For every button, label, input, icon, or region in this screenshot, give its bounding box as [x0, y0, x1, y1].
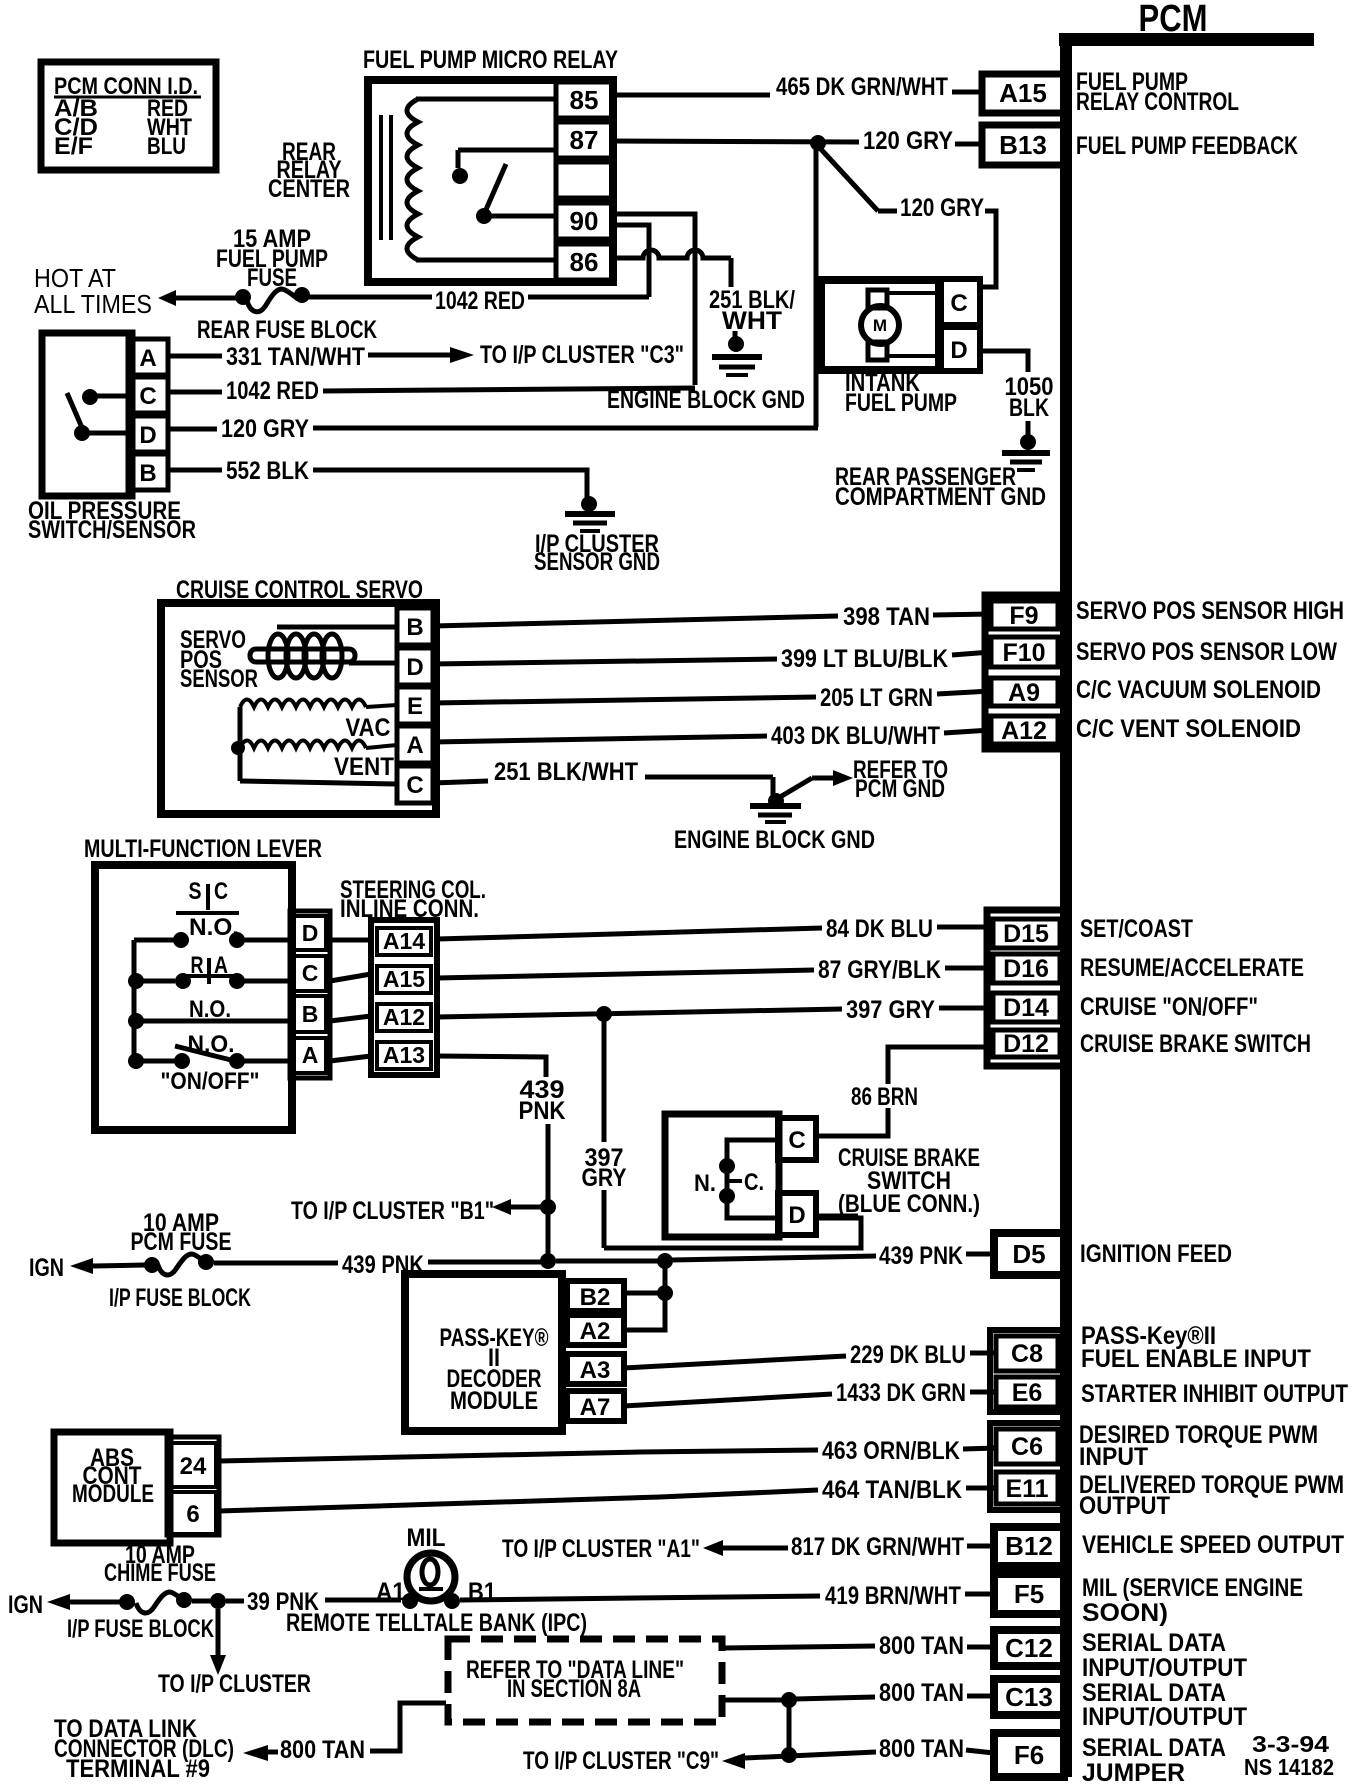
svg-text:INPUT/OUTPUT: INPUT/OUTPUT [1082, 1654, 1247, 1682]
svg-text:F10: F10 [1002, 639, 1045, 667]
svg-text:A15: A15 [383, 966, 425, 992]
svg-text:87: 87 [570, 125, 599, 155]
svg-text:1042 RED: 1042 RED [435, 287, 525, 315]
svg-text:D16: D16 [1003, 955, 1049, 983]
svg-text:OUTPUT: OUTPUT [1079, 1492, 1170, 1520]
svg-text:A1: A1 [376, 1578, 405, 1606]
svg-text:FUEL PUMP: FUEL PUMP [845, 389, 957, 417]
svg-text:RELAY CONTROL: RELAY CONTROL [1076, 88, 1239, 116]
svg-text:C/C VENT SOLENOID: C/C VENT SOLENOID [1076, 715, 1301, 743]
svg-text:D15: D15 [1003, 920, 1049, 948]
svg-text:M: M [873, 316, 887, 335]
svg-text:BLK: BLK [1009, 394, 1049, 422]
svg-text:NS 14182: NS 14182 [1244, 1754, 1334, 1780]
svg-text:A: A [406, 732, 423, 759]
svg-text:E11: E11 [1005, 1475, 1048, 1503]
svg-text:WHT: WHT [722, 307, 782, 335]
svg-text:6: 6 [186, 1501, 199, 1528]
svg-text:B2: B2 [580, 1284, 611, 1311]
svg-text:I/P FUSE BLOCK: I/P FUSE BLOCK [109, 1284, 251, 1312]
svg-text:B12: B12 [1005, 1531, 1053, 1561]
svg-text:D: D [950, 337, 967, 364]
svg-text:464 TAN/BLK: 464 TAN/BLK [822, 1476, 962, 1504]
svg-text:IGN: IGN [8, 1591, 43, 1619]
svg-text:D12: D12 [1003, 1030, 1049, 1058]
svg-text:552 BLK: 552 BLK [226, 457, 309, 485]
svg-text:SENSOR: SENSOR [180, 665, 258, 693]
svg-text:465 DK GRN/WHT: 465 DK GRN/WHT [776, 73, 948, 101]
svg-text:MODULE: MODULE [450, 1387, 538, 1415]
svg-text:24: 24 [180, 1453, 207, 1480]
svg-text:399 LT BLU/BLK: 399 LT BLU/BLK [781, 645, 948, 673]
svg-text:B: B [302, 1001, 319, 1027]
svg-text:INPUT: INPUT [1079, 1443, 1148, 1471]
svg-text:C13: C13 [1005, 1682, 1053, 1712]
svg-text:A12: A12 [1001, 717, 1047, 745]
svg-text:VEHICLE SPEED OUTPUT: VEHICLE SPEED OUTPUT [1082, 1531, 1344, 1559]
svg-text:SWITCH/SENSOR: SWITCH/SENSOR [28, 516, 196, 544]
svg-text:CHIME FUSE: CHIME FUSE [104, 1559, 216, 1587]
svg-text:STARTER INHIBIT OUTPUT: STARTER INHIBIT OUTPUT [1081, 1380, 1348, 1408]
svg-text:FUEL PUMP MICRO RELAY: FUEL PUMP MICRO RELAY [363, 46, 618, 74]
svg-text:BLU: BLU [147, 133, 186, 160]
svg-text:C8: C8 [1011, 1340, 1043, 1368]
svg-text:331 TAN/WHT: 331 TAN/WHT [226, 343, 365, 371]
svg-text:D: D [302, 920, 319, 946]
svg-text:800 TAN: 800 TAN [879, 1632, 964, 1660]
svg-text:800 TAN: 800 TAN [879, 1679, 964, 1707]
svg-text:E/F: E/F [54, 133, 93, 160]
svg-text:C6: C6 [1011, 1433, 1043, 1461]
svg-text:C: C [788, 1127, 805, 1154]
svg-text:F5: F5 [1014, 1579, 1044, 1609]
svg-text:A7: A7 [580, 1394, 611, 1421]
svg-text:GRY: GRY [582, 1164, 627, 1192]
svg-text:TERMINAL #9: TERMINAL #9 [66, 1755, 210, 1783]
svg-text:IGNITION FEED: IGNITION FEED [1080, 1240, 1232, 1268]
svg-text:D: D [788, 1202, 805, 1229]
svg-text:SERVO POS SENSOR HIGH: SERVO POS SENSOR HIGH [1076, 597, 1344, 625]
svg-text:A3: A3 [580, 1357, 611, 1384]
svg-text:D5: D5 [1012, 1239, 1045, 1269]
svg-text:84 DK BLU: 84 DK BLU [826, 915, 933, 943]
svg-text:817 DK GRN/WHT: 817 DK GRN/WHT [791, 1533, 964, 1561]
svg-text:120 GRY: 120 GRY [863, 127, 953, 155]
svg-text:439 PNK: 439 PNK [879, 1242, 963, 1270]
svg-text:MODULE: MODULE [72, 1480, 154, 1508]
svg-text:TO I/P CLUSTER "B1": TO I/P CLUSTER "B1" [291, 1197, 494, 1225]
svg-text:FUEL PUMP FEEDBACK: FUEL PUMP FEEDBACK [1076, 132, 1298, 160]
svg-text:C: C [214, 878, 228, 905]
svg-text:A13: A13 [383, 1042, 425, 1068]
svg-text:D: D [406, 654, 423, 681]
svg-text:C12: C12 [1005, 1633, 1053, 1663]
svg-text:B: B [139, 460, 156, 487]
svg-text:(BLUE CONN.): (BLUE CONN.) [838, 1190, 980, 1218]
svg-text:RESUME/ACCELERATE: RESUME/ACCELERATE [1080, 954, 1304, 982]
svg-text:REAR FUSE BLOCK: REAR FUSE BLOCK [197, 316, 377, 344]
svg-text:800 TAN: 800 TAN [879, 1735, 964, 1763]
svg-text:398 TAN: 398 TAN [843, 603, 930, 631]
svg-text:A: A [302, 1042, 319, 1068]
svg-text:INPUT/OUTPUT: INPUT/OUTPUT [1082, 1703, 1247, 1731]
svg-text:B: B [406, 614, 423, 641]
svg-text:A12: A12 [383, 1004, 425, 1030]
svg-text:C: C [302, 960, 319, 986]
svg-text:I/P FUSE BLOCK: I/P FUSE BLOCK [67, 1615, 214, 1643]
svg-text:D14: D14 [1003, 994, 1049, 1022]
svg-text:B1: B1 [468, 1578, 496, 1606]
svg-text:251 BLK/WHT: 251 BLK/WHT [494, 758, 638, 786]
svg-text:C: C [950, 290, 967, 317]
svg-text:86 BRN: 86 BRN [851, 1083, 918, 1111]
svg-text:229 DK BLU: 229 DK BLU [850, 1341, 966, 1369]
svg-text:N.: N. [694, 1170, 716, 1197]
svg-text:E6: E6 [1012, 1379, 1043, 1407]
svg-text:A: A [139, 345, 156, 372]
svg-text:ALL TIMES: ALL TIMES [34, 289, 152, 319]
svg-text:D: D [139, 422, 156, 449]
svg-text:FUSE: FUSE [247, 264, 297, 292]
svg-text:PCM FUSE: PCM FUSE [131, 1228, 232, 1256]
svg-text:REMOTE TELLTALE BANK (IPC): REMOTE TELLTALE BANK (IPC) [286, 1609, 587, 1637]
svg-text:SERIAL DATA: SERIAL DATA [1082, 1734, 1226, 1762]
svg-text:CRUISE "ON/OFF": CRUISE "ON/OFF" [1080, 993, 1258, 1021]
svg-text:1433 DK GRN: 1433 DK GRN [836, 1379, 966, 1407]
svg-text:C: C [139, 383, 156, 410]
svg-text:85: 85 [570, 85, 599, 115]
svg-text:F9: F9 [1009, 602, 1038, 630]
svg-text:F6: F6 [1014, 1740, 1044, 1770]
svg-text:C: C [406, 772, 423, 799]
svg-text:VENT: VENT [334, 753, 394, 781]
svg-text:SOON): SOON) [1082, 1599, 1168, 1627]
svg-text:TO I/P CLUSTER: TO I/P CLUSTER [158, 1670, 311, 1698]
svg-text:FUEL ENABLE INPUT: FUEL ENABLE INPUT [1081, 1345, 1311, 1373]
svg-text:IGN: IGN [29, 1254, 64, 1282]
svg-text:397 GRY: 397 GRY [846, 996, 935, 1024]
svg-text:PNK: PNK [519, 1097, 566, 1125]
svg-text:C/C VACUUM SOLENOID: C/C VACUUM SOLENOID [1076, 676, 1321, 704]
svg-text:A9: A9 [1008, 679, 1040, 707]
svg-text:463 ORN/BLK: 463 ORN/BLK [822, 1437, 960, 1465]
svg-text:CENTER: CENTER [268, 175, 350, 203]
svg-text:1042 RED: 1042 RED [226, 377, 319, 405]
svg-text:C.: C. [744, 1169, 764, 1196]
svg-text:SERIAL DATA: SERIAL DATA [1082, 1629, 1226, 1657]
svg-text:IN SECTION 8A: IN SECTION 8A [507, 1675, 641, 1703]
svg-text:205 LT GRN: 205 LT GRN [820, 684, 933, 712]
svg-text:MULTI-FUNCTION LEVER: MULTI-FUNCTION LEVER [84, 835, 322, 863]
svg-text:CRUISE BRAKE SWITCH: CRUISE BRAKE SWITCH [1080, 1030, 1311, 1058]
svg-text:A2: A2 [580, 1318, 611, 1345]
svg-text:MIL: MIL [407, 1524, 446, 1552]
svg-text:A15: A15 [999, 78, 1047, 108]
svg-text:TO I/P CLUSTER "C3": TO I/P CLUSTER "C3" [480, 341, 684, 369]
svg-text:B13: B13 [999, 130, 1047, 160]
svg-text:120 GRY: 120 GRY [900, 194, 984, 222]
svg-text:419 BRN/WHT: 419 BRN/WHT [825, 1582, 961, 1610]
svg-text:403 DK BLU/WHT: 403 DK BLU/WHT [771, 722, 940, 750]
svg-text:86: 86 [570, 247, 599, 277]
svg-text:TO I/P CLUSTER "A1": TO I/P CLUSTER "A1" [502, 1535, 700, 1563]
svg-text:87 GRY/BLK: 87 GRY/BLK [818, 956, 941, 984]
svg-text:ENGINE BLOCK GND: ENGINE BLOCK GND [674, 826, 875, 854]
svg-text:VAC: VAC [346, 714, 391, 742]
svg-text:MIL (SERVICE ENGINE: MIL (SERVICE ENGINE [1082, 1574, 1303, 1602]
svg-text:SERVO POS SENSOR LOW: SERVO POS SENSOR LOW [1076, 638, 1337, 666]
svg-text:90: 90 [570, 206, 599, 236]
svg-text:SET/COAST: SET/COAST [1080, 915, 1193, 943]
svg-text:A14: A14 [383, 928, 425, 954]
svg-text:800 TAN: 800 TAN [280, 1736, 365, 1764]
svg-text:S: S [189, 878, 202, 905]
svg-text:COMPARTMENT GND: COMPARTMENT GND [835, 483, 1046, 511]
svg-text:"ON/OFF": "ON/OFF" [161, 1068, 260, 1095]
svg-text:JUMPER: JUMPER [1082, 1759, 1185, 1787]
svg-text:SENSOR GND: SENSOR GND [534, 548, 660, 576]
svg-text:E: E [407, 693, 423, 720]
svg-text:TO I/P CLUSTER "C9": TO I/P CLUSTER "C9" [523, 1747, 719, 1775]
svg-text:PCM GND: PCM GND [855, 775, 945, 803]
svg-text:120 GRY: 120 GRY [221, 415, 309, 443]
